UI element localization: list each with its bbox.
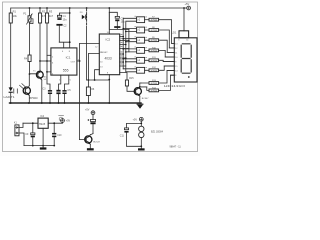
supply +5V top right bbox=[187, 6, 191, 10]
svg-text:C11: C11 bbox=[120, 135, 125, 137]
resistor R4 bbox=[28, 55, 38, 74]
wire T3 collector bbox=[140, 83, 147, 87]
resistor R1 bbox=[9, 8, 12, 88]
transistor T4 bbox=[79, 134, 93, 149]
wire IC2 pin left a bbox=[88, 54, 99, 81]
svg-text:BZ1 1B004: BZ1 1B004 bbox=[151, 131, 164, 134]
svg-text:15: 15 bbox=[175, 66, 177, 68]
node pin b bbox=[94, 79, 96, 81]
wire bus B bbox=[126, 21, 137, 72]
svg-text:+5V: +5V bbox=[66, 120, 71, 123]
node R3 crossing bbox=[46, 60, 48, 62]
wire R2 to IC1 pin6 bbox=[40, 60, 51, 62]
regulator IC4 78L05 bbox=[23, 118, 63, 128]
node R6 top bbox=[88, 79, 90, 81]
supply +5V T4 branch bbox=[91, 111, 95, 120]
transistor T3 bbox=[134, 83, 141, 103]
node R2-pin6 bbox=[39, 60, 41, 62]
ground T4 bbox=[87, 148, 94, 150]
resistor R13 bbox=[141, 71, 174, 85]
gate IC3B bbox=[122, 27, 149, 33]
connector K1 bbox=[15, 123, 24, 145]
op-amp IC2 counter box bbox=[99, 34, 119, 75]
wire bus C bbox=[128, 29, 130, 52]
svg-text:10u: 10u bbox=[63, 18, 68, 21]
resistor R11 bbox=[149, 59, 174, 62]
gate pin number specks bbox=[135, 16, 147, 68]
capacitor C9 electrolytic bbox=[31, 123, 35, 145]
IC2 right pin numbers bbox=[121, 34, 123, 65]
node rail display bbox=[183, 7, 185, 9]
capacitor C1 electrolytic bbox=[57, 13, 69, 20]
node C10 top bbox=[53, 122, 55, 124]
capacitor C5 bbox=[62, 75, 68, 103]
ground rail bbox=[10, 102, 142, 104]
svg-text:47k: 47k bbox=[42, 14, 47, 18]
resistor R3 bbox=[46, 8, 49, 72]
svg-text:470Ω: 470Ω bbox=[151, 90, 158, 92]
svg-text:10k: 10k bbox=[13, 14, 18, 18]
wire R3 to IC1 pin2 bbox=[47, 54, 51, 56]
wire bus A bbox=[123, 18, 136, 69]
supply +5V regulator out bbox=[61, 119, 65, 123]
svg-text:P1: P1 bbox=[23, 12, 27, 16]
capacitor C6 electrolytic bbox=[109, 12, 119, 26]
svg-text:R15: R15 bbox=[129, 77, 134, 80]
svg-text:IC4: IC4 bbox=[40, 115, 44, 118]
svg-text:+5V: +5V bbox=[133, 118, 138, 121]
svg-text:470Ω: 470Ω bbox=[151, 83, 158, 85]
resistor R14 bbox=[141, 75, 174, 92]
wire pin5 to C3 bbox=[47, 72, 51, 90]
svg-text:14: 14 bbox=[175, 70, 177, 72]
capacitor C7 bbox=[109, 12, 129, 29]
ground buzzer bbox=[140, 146, 142, 148]
resistor R9 bbox=[149, 39, 174, 53]
svg-text:BPW40: BPW40 bbox=[30, 97, 39, 100]
capacitor C11 electrolytic bbox=[124, 123, 141, 146]
capacitor C3 bbox=[48, 90, 52, 103]
svg-text:LA2LT1: LA2LT1 bbox=[4, 96, 16, 99]
label IC1 pin numbers bbox=[52, 51, 80, 82]
display pin numbers bbox=[175, 40, 188, 77]
wire IC1 top pins bbox=[59, 42, 69, 48]
node buzzer bottom bbox=[140, 145, 142, 147]
wire IC2 bottom pin to ground bbox=[108, 75, 110, 103]
node IC1 pin8 junction bbox=[69, 41, 71, 43]
capacitor C4 electrolytic bbox=[56, 75, 60, 103]
svg-text:BC547: BC547 bbox=[93, 142, 100, 144]
svg-text:14: 14 bbox=[186, 40, 188, 42]
svg-text:BC547: BC547 bbox=[142, 98, 149, 100]
node base junction bbox=[29, 73, 31, 75]
ground regulator bbox=[42, 146, 44, 148]
resistor R10 bbox=[149, 49, 174, 57]
svg-text:9: 9 bbox=[175, 61, 176, 63]
svg-text:555: 555 bbox=[63, 68, 69, 72]
label IC2 pin numbers bbox=[95, 32, 110, 75]
svg-text:470Ω: 470Ω bbox=[151, 60, 158, 62]
svg-text:13: 13 bbox=[175, 43, 177, 45]
svg-text:470Ω: 470Ω bbox=[151, 30, 158, 32]
svg-text:12: 12 bbox=[175, 48, 177, 50]
svg-text:470Ω: 470Ω bbox=[151, 20, 158, 22]
svg-text:OUT: OUT bbox=[71, 62, 76, 64]
node T3 collector branch bbox=[139, 86, 141, 88]
svg-text:3: 3 bbox=[178, 40, 179, 42]
node rail-R2 bbox=[39, 7, 41, 9]
wire top +5V rail bbox=[11, 7, 187, 9]
light arrows bbox=[14, 84, 25, 94]
svg-text:R3: R3 bbox=[49, 9, 53, 13]
resistor R12 bbox=[149, 66, 174, 72]
op-amp IC1 555 box bbox=[51, 48, 77, 75]
node C1 top junction bbox=[69, 12, 71, 14]
ground symbol main bbox=[137, 104, 144, 105]
capacitor C8 electrolytic bbox=[88, 119, 96, 133]
resistor R2 bbox=[39, 8, 42, 61]
node rail IC2 bbox=[108, 7, 110, 9]
resistor R8 bbox=[149, 29, 174, 48]
bus nodes bbox=[122, 36, 129, 63]
resistor R6 bbox=[86, 80, 90, 103]
transistor T1 phototransistor bbox=[23, 74, 30, 103]
node buzzer top bbox=[140, 123, 142, 125]
node rail drop IC1 bbox=[69, 7, 71, 9]
node reg ground bbox=[42, 145, 44, 147]
svg-text:4k7: 4k7 bbox=[49, 14, 54, 18]
node rail-R3 bbox=[46, 7, 48, 9]
svg-text:IC2: IC2 bbox=[106, 37, 111, 41]
LED LD1 bbox=[9, 87, 13, 103]
wire IC1 out to T4 base bbox=[77, 44, 80, 140]
resistor R7 bbox=[149, 18, 174, 43]
wire rail to IC1 top bbox=[69, 8, 71, 48]
potentiometer P1 bbox=[27, 8, 33, 55]
svg-text:470Ω: 470Ω bbox=[151, 40, 158, 42]
node pin5 junction bbox=[46, 71, 48, 73]
display LD1 seven segment bbox=[174, 8, 197, 82]
svg-text:C10: C10 bbox=[57, 135, 62, 137]
node IC2 out bottom bbox=[108, 79, 110, 81]
gate IC4A bbox=[122, 57, 149, 63]
svg-text:HD1131O: HD1131O bbox=[164, 84, 186, 88]
node C9 top bbox=[32, 122, 34, 124]
gate IC3A bbox=[137, 17, 149, 23]
diode D1 with light beam dashes bbox=[82, 9, 87, 80]
svg-text:470Ω: 470Ω bbox=[151, 70, 158, 72]
svg-text:IC1: IC1 bbox=[66, 56, 71, 60]
supply +5V small mid bbox=[59, 116, 64, 121]
gate IC4B bbox=[123, 67, 149, 73]
node 555 out bbox=[79, 60, 81, 62]
svg-text:LD1: LD1 bbox=[172, 31, 177, 35]
gate IC3D bbox=[122, 48, 149, 54]
svg-text:98647 - 11: 98647 - 11 bbox=[170, 146, 182, 149]
capacitor C2 bbox=[56, 24, 62, 42]
svg-text:8: 8 bbox=[175, 75, 176, 77]
wire IC2 right stubs bbox=[120, 37, 129, 67]
svg-text:11: 11 bbox=[175, 52, 177, 54]
svg-text:78L05: 78L05 bbox=[39, 124, 46, 126]
svg-text:4033: 4033 bbox=[105, 56, 112, 60]
svg-text:10: 10 bbox=[175, 57, 177, 59]
wire IC2 pin left b bbox=[95, 70, 100, 80]
transistor T2 bbox=[36, 61, 43, 103]
svg-text:+5V: +5V bbox=[85, 109, 90, 112]
buzzer BZ1 bbox=[139, 126, 144, 146]
gate IC3C bbox=[122, 37, 149, 43]
supply +5V buzzer bbox=[139, 117, 143, 126]
wire node to IC2 bottom bbox=[87, 79, 110, 81]
svg-text:470Ω: 470Ω bbox=[151, 50, 158, 52]
resistor R15 bbox=[120, 73, 135, 92]
svg-text:R1: R1 bbox=[13, 9, 17, 13]
node rail-P1 bbox=[29, 7, 31, 9]
wire IC2 pin12 bbox=[80, 43, 100, 45]
decimal point bbox=[188, 76, 190, 78]
node rail D1 bbox=[86, 7, 88, 9]
seven segment digit bbox=[181, 44, 191, 73]
capacitor C10 bbox=[52, 123, 56, 145]
wire IC2 top pin bbox=[108, 8, 110, 34]
wire regulator ground bbox=[24, 128, 54, 145]
svg-text:+5V: +5V bbox=[185, 2, 190, 6]
node C10 bottom bbox=[53, 145, 55, 147]
node C9 bottom bbox=[32, 145, 34, 147]
ground rail node dots bbox=[10, 102, 110, 104]
display pin stubs bbox=[163, 43, 174, 75]
